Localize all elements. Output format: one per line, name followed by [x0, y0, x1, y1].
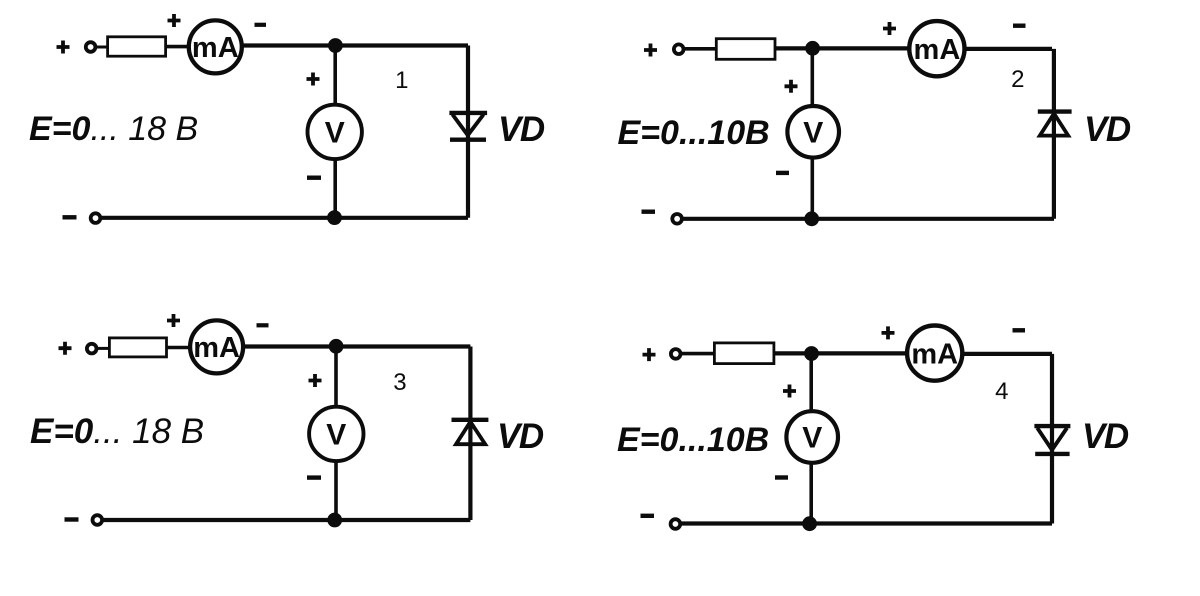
milliammeter PA1 — [189, 20, 242, 73]
wire PV3 down to node B3 — [334, 461, 338, 520]
wire node A2 down to voltmeter PV2 — [810, 48, 814, 105]
svg-text:VD: VD — [1082, 417, 1129, 456]
svg-text:VD: VD — [497, 417, 544, 456]
terminal T3- — [93, 515, 103, 525]
svg-text:E=0...10B: E=0...10B — [618, 114, 770, 152]
resistor R4 — [714, 343, 774, 364]
diode VD4 (anode top, cathode bottom) — [1034, 426, 1070, 454]
wire node A1 down to voltmeter PV1 — [333, 46, 337, 106]
wire right branch down to diode VD2 — [1052, 49, 1056, 219]
terminal T4+ — [671, 349, 681, 359]
resistor R1 — [108, 37, 166, 56]
wire PV2 down to node B2 — [810, 158, 814, 219]
wire terminal to resistor R1 — [97, 46, 108, 49]
junction node A4 — [805, 347, 819, 361]
svg-text:1: 1 — [395, 67, 408, 94]
milliammeter PA2 plus label — [883, 22, 896, 35]
wire R4 to node A4 to milliammeter PA4 — [774, 351, 907, 355]
milliammeter PA3 minus label — [257, 323, 269, 327]
svg-text:E=0... 18 В: E=0... 18 В — [29, 110, 198, 148]
wire PA3 to node A3 to top-right corner — [243, 344, 470, 348]
wire PV1 down to node B1 — [333, 159, 337, 218]
junction node B4 — [803, 517, 817, 531]
svg-text:V: V — [326, 419, 346, 452]
terminal T4- — [671, 519, 681, 529]
junction node A2 — [806, 41, 820, 55]
voltmeter PV3 plus label — [309, 374, 322, 387]
svg-text:E=0...10B: E=0...10B — [617, 421, 769, 459]
junction node B2 — [805, 212, 819, 226]
svg-text:V: V — [325, 117, 345, 150]
terminal + label (circuit 4 input plus) — [643, 348, 656, 361]
svg-text:mA: mA — [192, 32, 239, 64]
bottom wire node B1 to corner — [96, 216, 469, 220]
terminal T2- — [672, 214, 682, 224]
terminal - label (circuit 3 input minus) — [65, 517, 79, 521]
milliammeter PA4 plus label — [882, 326, 895, 339]
svg-text:mA: mA — [911, 338, 958, 370]
junction node B3 — [328, 513, 342, 527]
terminal + label (circuit 2 input plus) — [644, 44, 657, 57]
voltmeter PV1 minus label — [307, 175, 321, 179]
milliammeter PA1 plus label — [168, 14, 181, 27]
wire R3 to milliammeter PA3 — [167, 346, 189, 350]
milliammeter PA4 — [907, 326, 962, 381]
voltmeter PV4 — [786, 411, 838, 463]
wire R1 to milliammeter PA1 — [166, 45, 189, 49]
voltmeter PV1 — [308, 105, 362, 159]
milliammeter PA2 minus label — [1013, 24, 1026, 28]
voltmeter PV4 plus label — [783, 385, 796, 398]
wire terminal to resistor R2 — [685, 47, 716, 51]
wire R2 to node A2 to milliammeter PA2 — [775, 46, 909, 50]
voltmeter PV1 plus label — [307, 73, 320, 86]
diode VD1 (anode top, cathode bottom) — [449, 113, 487, 140]
resistor R3 — [109, 338, 166, 357]
svg-text:mA: mA — [193, 332, 240, 364]
milliammeter PA3 plus label — [167, 314, 180, 327]
wire right branch down through diode VD4 — [1050, 354, 1054, 524]
wire PA4 to top-right corner — [962, 352, 1052, 356]
wire terminal to resistor R4 — [682, 352, 714, 356]
terminal T1- — [91, 213, 101, 223]
bottom wire terminal to corner — [675, 521, 1052, 525]
wire right branch down to diode VD1 — [466, 46, 470, 218]
wire terminal to resistor R3 — [98, 347, 109, 350]
voltmeter PV2 — [787, 106, 839, 158]
wire PA2 to top-right corner — [964, 47, 1052, 51]
diode VD2 (cathode top, anode bottom) — [1038, 112, 1072, 136]
terminal - label (circuit 1 input minus) — [63, 215, 77, 219]
terminal T3+ — [87, 344, 97, 354]
junction node A3 — [329, 339, 343, 353]
wire node A4 down to voltmeter PV4 — [809, 354, 813, 412]
milliammeter PA2 — [909, 21, 964, 76]
bottom wire terminal to corner — [97, 518, 470, 522]
svg-text:VD: VD — [498, 110, 545, 149]
wire node A3 down to voltmeter PV3 — [334, 346, 338, 407]
svg-text:4: 4 — [995, 378, 1008, 405]
svg-text:V: V — [802, 422, 822, 455]
terminal - label (circuit 4 input minus) — [641, 514, 655, 518]
wire PV4 down to node B4 — [809, 463, 813, 524]
junction node A1 — [329, 39, 343, 53]
svg-text:3: 3 — [393, 369, 406, 396]
voltmeter PV2 plus label — [785, 80, 798, 93]
milliammeter PA3 — [190, 320, 243, 373]
terminal - label (circuit 2 input minus) — [642, 209, 656, 213]
milliammeter PA1 minus label — [255, 23, 267, 27]
svg-text:V: V — [803, 116, 823, 149]
voltmeter PV2 minus label — [776, 171, 789, 175]
voltmeter PV3 minus label — [307, 475, 321, 479]
svg-text:mA: mA — [914, 34, 961, 66]
svg-text:VD: VD — [1084, 110, 1131, 149]
terminal + label (circuit 3 input plus) — [59, 342, 72, 355]
voltmeter PV4 minus label — [775, 475, 788, 479]
milliammeter PA4 minus label — [1013, 328, 1026, 332]
diode VD3 (cathode top, anode bottom) — [452, 420, 489, 444]
resistor R2 — [716, 39, 775, 60]
bottom wire terminal to corner — [677, 217, 1054, 221]
wire right branch down through diode VD3 — [468, 347, 472, 521]
svg-text:E=0... 18 В: E=0... 18 В — [30, 412, 204, 451]
terminal + label (circuit 1 input plus) — [57, 41, 70, 54]
wire PA1 to node A1 to top-right corner — [242, 43, 468, 47]
svg-text:2: 2 — [1011, 66, 1024, 93]
terminal T2+ — [674, 44, 684, 54]
junction node B1 — [328, 211, 342, 225]
voltmeter PV3 — [309, 407, 363, 461]
terminal T1+ — [86, 42, 96, 52]
